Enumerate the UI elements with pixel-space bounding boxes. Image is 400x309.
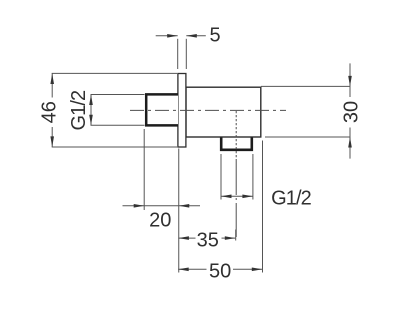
G1/2 inlet dimension bottom extension line [91, 124, 145, 126]
svg-text:50: 50 [209, 261, 231, 283]
dimension 35 line left segment [178, 237, 195, 239]
G1/2 inlet fitting (left, thick) [146, 94, 178, 125]
dimension 30 arrow down (top) [348, 76, 352, 87]
dimension 35 arrow right [225, 236, 236, 240]
dimension 5 extension line right [185, 39, 187, 69]
dimension 50 arrow right [252, 268, 262, 272]
dimension 46 top extension line [52, 72, 177, 74]
dimension 50 line left segment [178, 268, 206, 270]
dimension 35 line right segment [222, 237, 236, 239]
dimension 30 arrow up (bottom) [348, 137, 352, 148]
svg-text:G1/2: G1/2 [271, 188, 312, 210]
dimension 5 line left segment [156, 35, 178, 37]
svg-text:30: 30 [341, 101, 363, 123]
G1/2 outlet fitting (bottom, thick) [221, 138, 252, 150]
dimension 46 bottom extension line [52, 146, 177, 148]
vertical centerline upper (outlet axis, fine dashed) [235, 111, 237, 161]
dimension 20 arrow left-pointing [179, 204, 190, 208]
dimension 46 line lower segment [51, 127, 53, 147]
dimension 30 line upper segment [349, 63, 351, 97]
dimension 20 left extension line [143, 129, 145, 210]
flange (wall plate) [178, 74, 186, 148]
dimension 50 line right segment [233, 268, 262, 270]
vertical centerline lower (outlet axis) [235, 161, 237, 240]
shared right extension line (20/35/50) [178, 149, 180, 273]
dimension 50 right extension line [262, 141, 264, 273]
G1/2 outlet dimension line [221, 195, 253, 197]
dimension 30 bottom extension line [265, 136, 351, 138]
G1/2 outlet arrow left [221, 195, 232, 199]
dimension 5 line right segment [186, 35, 206, 37]
svg-text:46: 46 [38, 101, 60, 123]
dimension 50 arrow left [178, 268, 189, 272]
G1/2 outlet dimension left extension line [220, 154, 222, 200]
svg-text:G1/2: G1/2 [68, 90, 90, 131]
svg-text:35: 35 [197, 230, 219, 252]
G1/2 inlet arrow down [89, 115, 93, 126]
dimension 46 arrow up [50, 74, 54, 85]
dimension 20 arrow right-pointing [134, 204, 145, 208]
svg-text:20: 20 [149, 210, 171, 232]
dimension 30 top extension line [261, 85, 351, 87]
dimension 5 arrow left [167, 34, 178, 38]
G1/2 outlet arrow right [242, 195, 253, 199]
svg-text:5: 5 [210, 25, 221, 47]
dimension 20 line [123, 205, 201, 207]
G1/2 outlet dimension right extension line [252, 154, 254, 200]
dimension 35 right extension (centerline tail) [235, 230, 237, 241]
dimension 5 arrow right [186, 34, 197, 38]
dimension 46 line upper segment [51, 73, 53, 97]
dimension 5 extension line left [177, 39, 179, 69]
G1/2 inlet dimension line [90, 95, 92, 126]
dimension 35 arrow left [178, 236, 189, 240]
G1/2 inlet dimension top extension line [91, 94, 145, 96]
horizontal centerline [130, 109, 286, 111]
G1/2 inlet arrow up [89, 95, 93, 106]
body (main block) [186, 87, 261, 137]
dimension 30 line lower segment [349, 128, 351, 159]
dimension 46 arrow down [50, 136, 54, 147]
